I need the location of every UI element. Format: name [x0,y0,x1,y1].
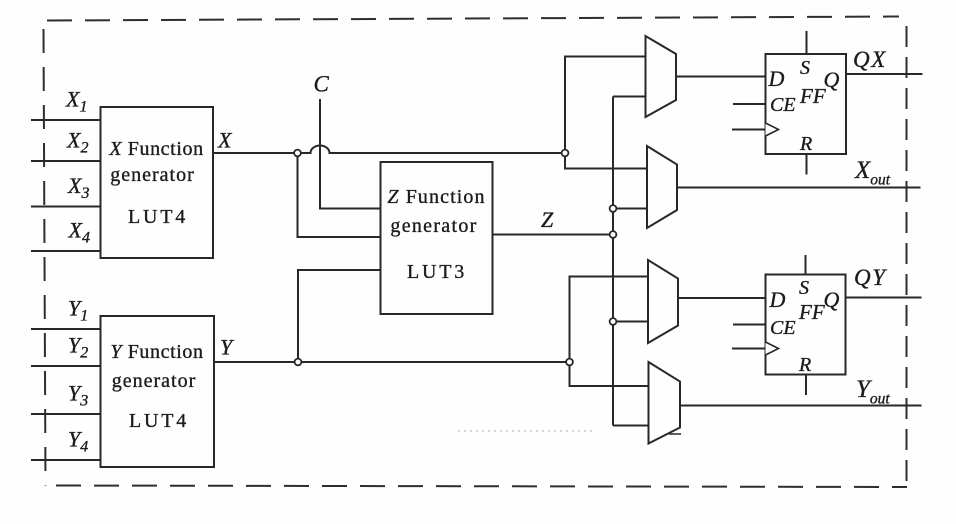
wire Z to mux M3 input 2 [613,321,648,323]
node X-b [562,150,569,157]
wire X net (with hop over C) [213,146,565,153]
wire Y branch to mux M4 input 1 [570,362,649,386]
svg-text:LUT4: LUT4 [129,410,189,432]
wire Y net [214,361,570,363]
wire Y3 input [31,413,100,415]
svg-text:CE: CE [770,94,796,116]
FF1 R pin [806,154,808,175]
wire Y2 input [31,365,100,367]
wire X branch to mux M1 input 1 [565,57,646,154]
X function generator LUT4 box [101,107,214,258]
FF2 CE stub [733,324,766,326]
svg-text:CE: CE [770,317,796,339]
svg-text:LUT4: LUT4 [128,206,188,228]
wire X branch to Z generator [298,153,381,237]
node Z-b [610,231,617,238]
FF2 clock triangle [766,342,779,355]
svg-text:Z: Z [541,207,554,232]
scan artifact dotted line [458,430,593,432]
wire Y_out from mux M4 [680,405,922,407]
Y function generator LUT4 box [101,316,215,467]
wire QY output [846,297,922,299]
svg-text:Q: Q [824,67,840,92]
node Z-a [610,205,617,212]
FF2 clock stub [732,348,766,350]
wire Z to mux M4 input 2 [613,425,649,427]
node X-a [294,150,301,157]
wire X_out from mux M2 [677,187,921,189]
svg-text:D: D [769,287,786,312]
wire X1 input [31,119,100,121]
svg-text:QY: QY [854,265,887,290]
wire Y branch to Z generator [298,270,381,362]
wire mux M1 output to FF1 D [676,76,766,78]
mux M4 [649,362,681,444]
svg-text:X Function: X Function [108,138,203,160]
wire Z output [493,234,614,236]
wire Z to mux M1 input 2 [613,96,646,98]
wire Y branch to mux M3 input 1 [570,277,649,363]
wire X2 input [31,160,100,162]
svg-text:S: S [799,277,809,299]
mux M3 [648,260,678,343]
node Y-b [566,359,573,366]
svg-text:R: R [799,133,812,155]
svg-text:generator: generator [390,215,477,237]
wire X branch to mux M2 input 1 [565,153,647,169]
FF2 S pin [805,255,807,275]
scan artifact dash under mux M4 [669,433,681,435]
svg-text:Y Function: Y Function [110,341,203,363]
wire Y1 input [31,328,100,330]
mux M2 [647,146,677,228]
Z function generator LUT3 box [381,162,493,314]
svg-text:C: C [314,72,330,97]
wire mux M3 output to FF2 D [678,297,766,299]
svg-text:generator: generator [112,370,197,392]
FF1 CE stub [733,103,766,105]
wire X3 input [31,206,100,208]
wire Z distribution vertical [612,97,614,426]
svg-text:X: X [217,128,233,153]
FF1 S pin [806,31,808,54]
svg-text:Z Function: Z Function [387,186,485,208]
mux M1 [646,36,677,117]
svg-text:S: S [800,57,810,79]
svg-text:FF: FF [798,300,825,324]
svg-text:FF: FF [799,84,826,108]
FF2 R pin [805,375,807,396]
svg-text:D: D [768,66,785,91]
wire Z to mux M2 input 2 [613,208,647,210]
svg-text:LUT3: LUT3 [407,261,467,283]
flip-flop FF2 [766,275,846,377]
FF1 clock stub [732,129,766,131]
wire X4 input [31,250,100,252]
wire QX output [846,73,923,75]
svg-text:QX: QX [853,47,887,72]
svg-text:R: R [798,354,811,376]
flip-flop FF1 [766,54,847,155]
node Z-c [610,318,617,325]
node Y-a [295,359,302,366]
svg-text:Q: Q [824,287,840,312]
wire C input to Z generator [320,99,381,209]
FF1 clock triangle [766,123,779,136]
svg-text:generator: generator [110,164,195,186]
wire Y4 input [31,459,100,461]
